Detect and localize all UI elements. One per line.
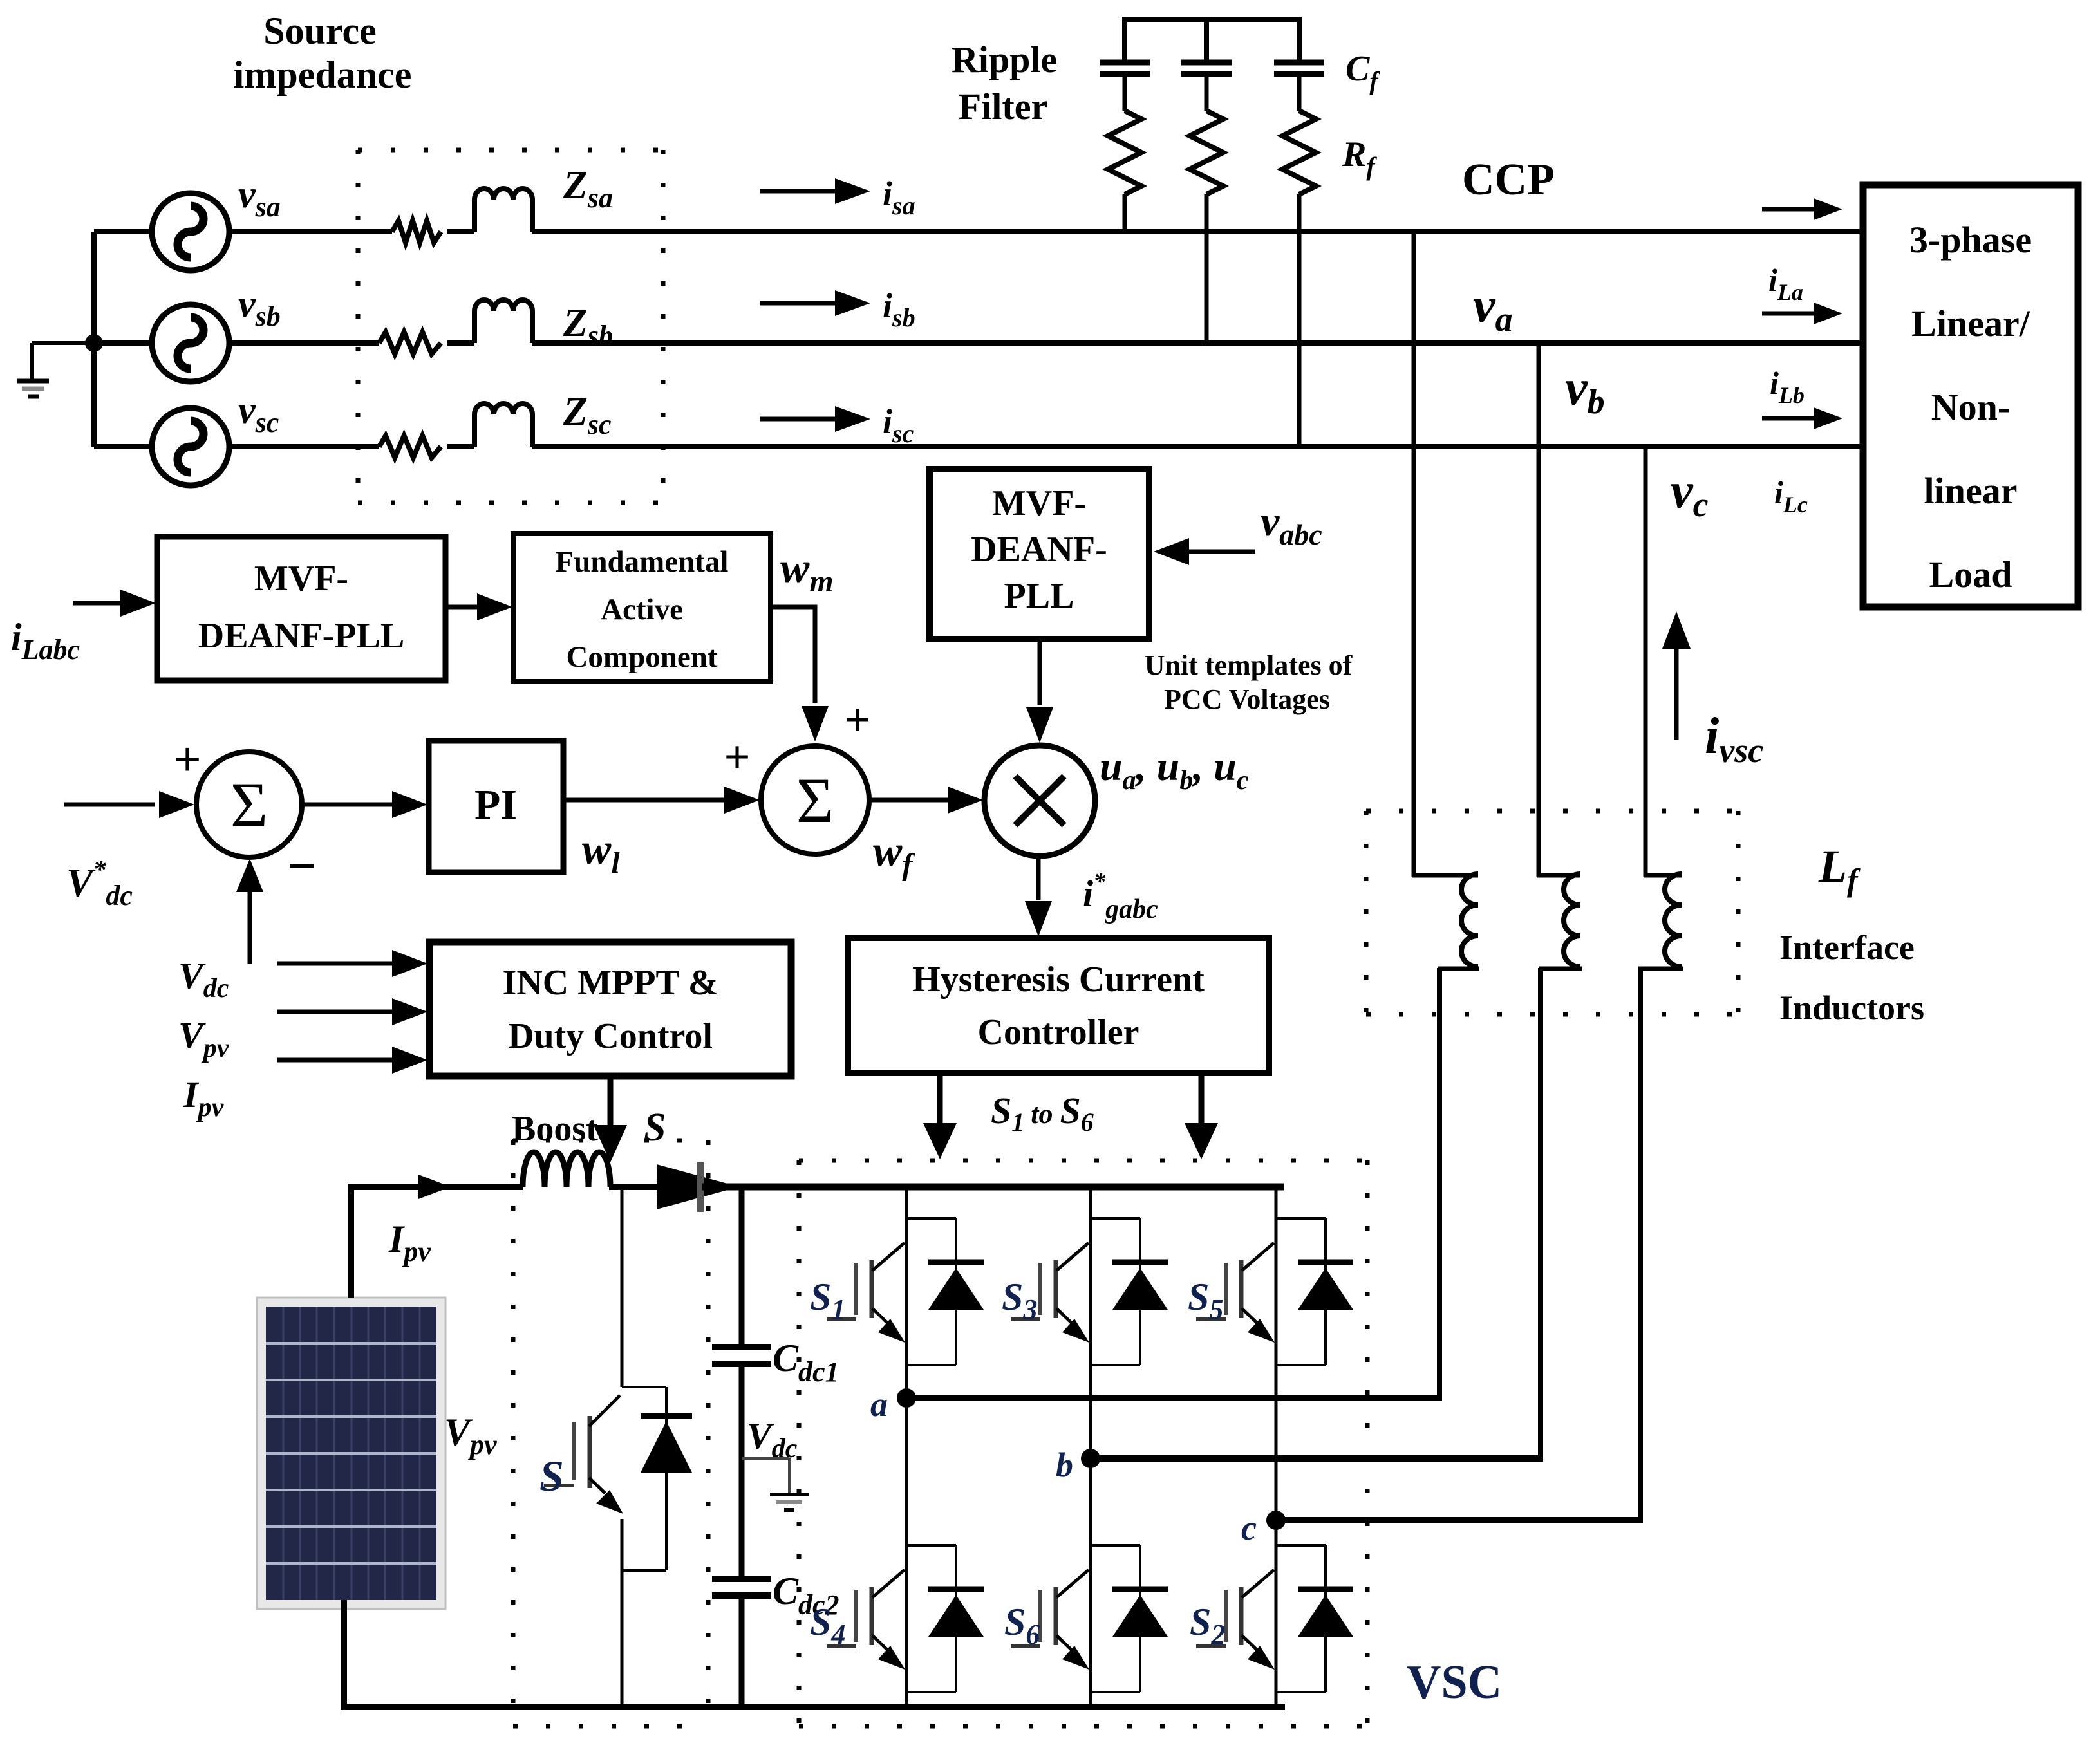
arrow Vdc to INC — [277, 962, 394, 966]
summer circle S2sum — [761, 746, 869, 854]
svg-text:+: + — [724, 731, 750, 783]
arrow i_vsc — [1674, 649, 1679, 740]
arrow Vpv to INC — [277, 1010, 394, 1014]
diode antiparallel — [1276, 1217, 1326, 1220]
svg-text:VSC: VSC — [1407, 1656, 1502, 1709]
AC source v_sb — [152, 304, 229, 382]
svg-text:Σ: Σ — [796, 765, 834, 836]
capacitor Cf — [1274, 60, 1324, 66]
wire left neutral bus vertical — [91, 232, 97, 447]
wire node b to inductor — [1091, 1455, 1541, 1462]
node b — [1081, 1449, 1100, 1468]
transistor IGBT — [870, 1587, 874, 1645]
wire VSC leg rail — [1275, 1184, 1278, 1707]
inductor L_f — [1537, 873, 1580, 878]
wire node c to inductor — [1276, 1517, 1640, 1523]
AC source v_sc — [152, 408, 229, 485]
arrow i_Lb — [1762, 416, 1815, 421]
svg-text:−: − — [287, 838, 317, 895]
dotted box source impedance — [358, 148, 663, 153]
block INC MPPT Duty Control — [429, 942, 791, 1076]
wire summer2 to multiplier — [869, 798, 950, 803]
wire Vdc ground stub — [742, 1457, 789, 1460]
svg-text:ua, ub, uc: ua, ub, uc — [1100, 743, 1249, 796]
ground symbol left — [17, 379, 49, 384]
summer circle S1sum — [196, 752, 302, 857]
svg-text:a: a — [870, 1385, 888, 1424]
capacitor Cf — [1181, 60, 1232, 66]
svg-text:Hysteresis Current: Hysteresis Current — [912, 960, 1205, 1000]
AC source v_sa — [152, 193, 229, 270]
resistor Rf — [1190, 111, 1223, 194]
dotted box interface inductors — [1366, 809, 1738, 814]
PV panel photo — [257, 1298, 445, 1609]
svg-text:PI: PI — [474, 781, 517, 828]
svg-text:S: S — [644, 1106, 666, 1150]
inductor Zs phase — [474, 189, 532, 232]
transistor S boost IGBT — [588, 1416, 592, 1488]
svg-text:linear: linear — [1924, 470, 2018, 512]
svg-text:c: c — [1241, 1509, 1257, 1547]
wire Vdc vertical to summer — [248, 940, 252, 964]
wire ripple filter top bus — [1122, 17, 1301, 22]
block MVF-DEANF-PLL (current) — [157, 537, 445, 680]
capacitor C_dc1 — [712, 1344, 771, 1350]
arrow Vdc feedback into summer1 — [248, 891, 252, 940]
wire PCC tap vertical — [1412, 232, 1416, 877]
diode antiparallel — [1091, 1544, 1140, 1547]
wire PI to summer2 — [563, 798, 726, 803]
block MVF-DEANF-PLL (voltage) — [930, 469, 1149, 639]
box 3-phase load — [1863, 185, 2078, 607]
wire DC bus top — [702, 1184, 1284, 1191]
resistor Zs phase — [392, 221, 441, 243]
inductor Zs phase — [474, 300, 532, 343]
resistor Zs phase — [379, 436, 441, 458]
block Fundamental Active Component — [513, 534, 771, 682]
wire boost mid — [609, 1184, 658, 1190]
wire ripple branch lower — [1205, 194, 1209, 343]
wire ripple branch lower — [1297, 194, 1302, 447]
diode antiparallel — [1091, 1217, 1140, 1220]
wire PV negative bottom rail — [341, 1600, 347, 1707]
svg-text:Boost: Boost — [512, 1109, 598, 1149]
arrow S gate from INC — [608, 1076, 614, 1126]
arrow gating left to VSC — [937, 1073, 943, 1123]
svg-text:Duty Control: Duty Control — [508, 1016, 713, 1056]
node a — [897, 1388, 916, 1408]
wire ripple branch lower — [1123, 194, 1127, 232]
svg-text:Active: Active — [601, 593, 683, 626]
svg-text:impedance: impedance — [234, 53, 412, 96]
wire multiplier to hysteresis — [1036, 856, 1041, 900]
arrow into load phase a — [1762, 207, 1815, 212]
arrow i_sb — [760, 301, 837, 306]
wire summer1 to PI — [302, 803, 394, 807]
svg-text:PLL: PLL — [1004, 576, 1074, 616]
svg-text:PCC Voltages: PCC Voltages — [1164, 684, 1330, 715]
wire VSC leg rail — [905, 1184, 908, 1707]
wire phase C bus horizontal — [229, 444, 379, 449]
capacitor C_dc2 — [712, 1576, 771, 1582]
resistor Zs phase — [379, 332, 441, 354]
node neutral junction — [85, 334, 103, 352]
capacitor Cf — [1100, 60, 1150, 66]
transistor IGBT — [1054, 1260, 1058, 1318]
diode boost switch antiparallel — [622, 1386, 666, 1388]
svg-text:Component: Component — [566, 640, 717, 674]
arrow i_La — [1762, 312, 1815, 316]
svg-text:INC MPPT &: INC MPPT & — [503, 963, 718, 1003]
wire VSC leg rail — [1089, 1184, 1092, 1707]
svg-text:CCP: CCP — [1462, 155, 1555, 205]
svg-text:Filter: Filter — [959, 86, 1047, 127]
arrow gating right to VSC — [1199, 1073, 1205, 1123]
svg-text:S: S — [539, 1451, 564, 1500]
arrow Ipv to INC — [277, 1058, 394, 1063]
svg-text:Interface: Interface — [1779, 928, 1915, 967]
diode antiparallel — [1276, 1544, 1326, 1547]
wire PCC tap vertical — [1644, 447, 1648, 877]
multiplier circle — [984, 745, 1095, 856]
svg-text:Fundamental: Fundamental — [556, 545, 729, 579]
arrow I_pv on wire — [418, 1175, 451, 1199]
svg-text:Σ: Σ — [230, 769, 268, 841]
arrow i_sc — [760, 417, 837, 422]
ground symbol Vdc — [770, 1493, 809, 1496]
resistor Rf — [1282, 111, 1316, 194]
wire DC link branch — [739, 1187, 745, 1347]
diode antiparallel — [906, 1544, 956, 1547]
node c — [1266, 1511, 1286, 1530]
svg-text:MVF-: MVF- — [992, 483, 1086, 523]
svg-text:+: + — [844, 694, 870, 745]
dotted box boost converter — [513, 1139, 708, 1143]
svg-text:DEANF-: DEANF- — [971, 530, 1107, 570]
svg-text:MVF-: MVF- — [254, 559, 348, 599]
dotted box VSC — [799, 1159, 1367, 1163]
svg-text:Controller: Controller — [978, 1012, 1139, 1052]
svg-text:Unit templates of: Unit templates of — [1145, 649, 1353, 681]
svg-text:Source: Source — [263, 10, 377, 52]
wire PCC tap vertical — [1537, 343, 1541, 877]
wire PV positive to boost — [348, 1187, 354, 1298]
resistor Rf — [1108, 111, 1141, 194]
inductor Zs phase — [474, 404, 532, 447]
wire PLL to FAC — [445, 605, 480, 610]
wire PLL to multiplier — [1038, 639, 1042, 705]
transistor IGBT — [1054, 1587, 1058, 1645]
svg-text:Non-: Non- — [1931, 386, 2010, 428]
wire phase A bus horizontal — [229, 229, 392, 234]
transistor IGBT — [1239, 1587, 1244, 1645]
block PI — [429, 741, 563, 872]
svg-text:3-phase: 3-phase — [1909, 219, 2032, 261]
arrow v_abc into PLL — [1189, 550, 1255, 554]
wire to ground — [32, 341, 94, 345]
arrow i_sa — [760, 189, 837, 194]
svg-text:+: + — [173, 732, 201, 787]
wire boost switch rail — [621, 1184, 624, 1387]
diode antiparallel — [906, 1217, 956, 1220]
inductor L_f — [1644, 873, 1682, 878]
svg-text:b: b — [1056, 1446, 1073, 1484]
diode boost — [657, 1164, 739, 1209]
arrow Vdc* into summer1 — [64, 803, 155, 807]
block Hysteresis Current Controller — [848, 938, 1269, 1073]
transistor IGBT — [1239, 1260, 1244, 1318]
svg-text:Linear/: Linear/ — [1911, 303, 2030, 344]
inductor boost — [523, 1152, 610, 1187]
svg-text:DEANF-PLL: DEANF-PLL — [198, 616, 404, 656]
wire FAC to summer2 — [771, 607, 815, 703]
svg-text:Inductors: Inductors — [1779, 989, 1924, 1027]
svg-text:Load: Load — [1929, 554, 2012, 595]
arrow i_Labc input — [73, 601, 122, 606]
inductor L_f — [1412, 873, 1478, 878]
transistor IGBT — [870, 1260, 874, 1318]
svg-text:Ripple: Ripple — [952, 39, 1057, 80]
wire node a to inductor — [906, 1395, 1439, 1401]
wire phase B bus horizontal — [229, 340, 379, 346]
